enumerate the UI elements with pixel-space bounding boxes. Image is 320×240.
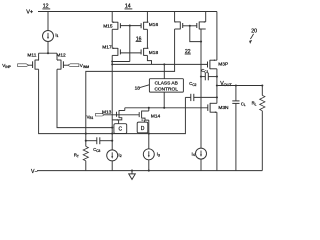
capacitor CC1 [200, 68, 218, 80]
node class AB tap [163, 63, 165, 65]
transistor M18 [141, 48, 158, 57]
transistor M13 [102, 108, 125, 124]
transistor M3N [208, 86, 229, 171]
node tail junction [47, 52, 49, 54]
svg-text:18: 18 [135, 86, 141, 92]
wire M16 source from rail [146, 12, 148, 23]
node 12 [42, 4, 50, 10]
wire bottom supply rail [37, 170, 262, 172]
wire M15 M16 gates [120, 25, 141, 27]
current source I1 [43, 31, 59, 42]
wire M3N gate bus [125, 107, 208, 109]
wire mirror right source [205, 12, 207, 22]
transistor M15 [103, 21, 120, 29]
node 14 [125, 4, 133, 10]
svg-text:V+: V+ [26, 10, 33, 16]
svg-text:CLASS AB: CLASS AB [155, 81, 178, 87]
ground [129, 170, 136, 180]
wire I1 to tail node [47, 42, 49, 54]
wire tail to M11 M12 [39, 52, 57, 54]
resistor RL [252, 84, 265, 170]
svg-text:C: C [118, 127, 122, 133]
wire M3P drain to Vout [216, 69, 218, 86]
block class AB control [149, 79, 183, 93]
transistor M14 [139, 108, 160, 134]
wire class AB output [163, 92, 165, 108]
wire right column bias [199, 29, 201, 148]
svg-text:M13: M13 [102, 109, 112, 115]
input VB1 [87, 114, 105, 121]
svg-text:M3P: M3P [218, 61, 228, 67]
wire mirror left source [174, 12, 176, 22]
capacitor CL [232, 84, 246, 170]
capacitor CC2 [185, 81, 218, 101]
wire class AB input [163, 64, 165, 78]
wire M12 drain down [57, 69, 112, 127]
resistor RT [74, 133, 89, 171]
node V+ supply label [26, 10, 33, 16]
input VINM [63, 63, 89, 69]
node class AB out junction [163, 107, 165, 109]
svg-text:M3N: M3N [218, 105, 229, 111]
node mirror diode junction [200, 41, 202, 43]
transistor M12 [56, 53, 66, 70]
node M14 source junction [148, 133, 150, 135]
svg-text:V−: V− [31, 169, 38, 175]
svg-text:M18: M18 [149, 50, 159, 56]
wire M15 source from rail [111, 12, 113, 23]
wire VB1 to gates [105, 114, 140, 116]
node mirror gate mid [189, 25, 191, 27]
wire mirror diode connection [190, 26, 201, 42]
svg-text:M16: M16 [149, 22, 159, 28]
svg-text:M12: M12 [56, 53, 66, 59]
node left column bottom junction [111, 133, 113, 135]
block D [137, 122, 148, 133]
node I3 rail junction [148, 170, 150, 172]
wire M16 drain to M18 [146, 29, 148, 48]
svg-text:M17: M17 [102, 45, 112, 51]
transistor mirror 22 left [175, 21, 183, 29]
node M17 drain junction [111, 60, 113, 62]
svg-text:D: D [141, 126, 145, 132]
node M12 drain junction [111, 127, 113, 129]
wire I1 top [47, 12, 49, 31]
wire gate bus vertical [129, 26, 131, 62]
ref label 18 [135, 85, 150, 92]
wire cascode out to M3P gate [112, 63, 207, 65]
svg-text:M15: M15 [103, 23, 113, 29]
block C [114, 124, 127, 134]
wire left column down [111, 62, 113, 150]
wire M11 drain down and bottom bus [39, 69, 186, 133]
node V- supply label [31, 169, 38, 175]
node cascode column tap [111, 63, 113, 65]
node VOUT [216, 81, 233, 87]
node 22 [185, 49, 191, 55]
transistor M16 [141, 21, 158, 29]
capacitor CC3 [86, 137, 113, 152]
transistor M17 [102, 45, 120, 56]
svg-text:M14: M14 [151, 114, 161, 120]
node gate bus junction [129, 25, 131, 27]
current source I2 [107, 150, 122, 171]
current source I4 [192, 148, 207, 171]
wire M17 drain to bus [112, 55, 130, 61]
svg-text:20: 20 [251, 29, 257, 35]
wire top supply rail 12-14 [38, 11, 217, 13]
wire M15 drain to M17 [111, 29, 113, 48]
wire mirror left drain to comp bus [86, 29, 175, 146]
svg-text:CONTROL: CONTROL [154, 87, 178, 93]
transistor M3P [208, 12, 229, 70]
input VINP [2, 63, 32, 69]
wire mirror gates [183, 25, 197, 27]
svg-text:M11: M11 [27, 53, 36, 59]
transistor M11 [27, 53, 39, 70]
ref label 20 [249, 29, 257, 44]
node 16 [136, 36, 142, 42]
transistor mirror 22 right [197, 21, 206, 29]
node M14 drain junction [148, 107, 150, 109]
wire M17 M18 gates [120, 52, 141, 54]
wire I3 top [148, 134, 150, 149]
current source I3 [143, 149, 160, 171]
wire output rail [217, 85, 262, 87]
wire M18 drain step [147, 55, 151, 64]
